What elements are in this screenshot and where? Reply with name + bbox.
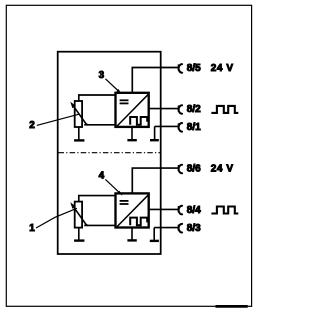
- converter U4 box: [116, 193, 149, 227]
- svg-text:4: 4: [99, 170, 105, 181]
- svg-text:3: 3: [99, 70, 105, 81]
- label 2: [29, 120, 35, 131]
- wire converter U3 output to pin 8/2: [149, 108, 178, 110]
- converter U3 box: [116, 93, 149, 127]
- leader line from label 1: [36, 208, 77, 228]
- pulse waveform icon (pin 8/4): [211, 207, 238, 214]
- ground (sensor element 2): [74, 128, 84, 141]
- pin 8/4 label: [187, 205, 201, 216]
- arrow through sensor element 2: [70, 102, 88, 125]
- 24 V label (pin 8/5): [211, 63, 234, 74]
- wire sensor wiper to converter: [84, 224, 115, 226]
- leader line from label 4: [105, 179, 122, 195]
- ground (converter U3): [127, 128, 136, 140]
- wire pin 8/1: [155, 125, 179, 127]
- pin 8/6 label: [187, 164, 201, 175]
- ground (converter U4): [127, 228, 136, 240]
- pin 8/3 contact: [178, 224, 182, 233]
- wire pin 8/3: [154, 227, 178, 229]
- pin 8/2 contact: [178, 105, 182, 114]
- pin 8/2 label: [187, 104, 201, 115]
- wire sensor top to converter (node): [79, 196, 116, 202]
- leader line from label 2: [37, 114, 79, 125]
- 24 V label (pin 8/6): [211, 164, 234, 175]
- pin 8/1 contact: [178, 123, 182, 132]
- arrow through sensor element 1: [70, 202, 88, 225]
- pulse waveform icon (pin 8/2): [211, 106, 238, 113]
- svg-text:8/4: 8/4: [187, 205, 201, 216]
- pin 8/5 label: [187, 63, 201, 74]
- svg-text:8/5: 8/5: [187, 63, 201, 74]
- label 1: [29, 223, 35, 234]
- label 4: [99, 170, 105, 181]
- svg-text:8/2: 8/2: [187, 104, 201, 115]
- sensor element 1 (variable resistor body): [75, 202, 82, 228]
- pin 8/6 contact: [178, 165, 182, 174]
- svg-text:2: 2: [29, 120, 35, 131]
- wire converter U3 supply to pin 8/5: [132, 68, 178, 93]
- leader line from label 3: [105, 79, 121, 94]
- wire converter U4 output to pin 8/4: [149, 208, 178, 210]
- pin 8/1 label: [187, 122, 201, 133]
- converter U4 pulse symbol: [130, 218, 147, 226]
- svg-text:8/6: 8/6: [187, 164, 201, 175]
- svg-text:8/3: 8/3: [187, 223, 201, 234]
- wire sensor wiper to converter: [84, 124, 115, 126]
- ground (pin 8/1 reference): [150, 126, 159, 140]
- sensor housing outline: [58, 52, 161, 254]
- svg-text:24 V: 24 V: [211, 63, 234, 74]
- converter U3 diagonal: [117, 94, 149, 126]
- svg-text:1: 1: [29, 223, 35, 234]
- sensor element 2 (variable resistor body): [75, 101, 82, 127]
- wire sensor top to converter (node): [79, 95, 116, 101]
- channel separator chain line: [59, 152, 161, 154]
- wire converter U4 supply to pin 8/6: [132, 168, 178, 193]
- label 3: [99, 70, 105, 81]
- converter U4 diagonal: [117, 195, 149, 227]
- pin 8/3 label: [187, 223, 201, 234]
- pin 8/5 contact: [178, 64, 182, 73]
- ground (sensor element 1): [74, 228, 84, 241]
- converter U3 pulse symbol: [130, 117, 147, 125]
- ground (pin 8/3 reference): [150, 228, 159, 241]
- converter U3 DC symbol (=): [120, 100, 129, 103]
- svg-text:24 V: 24 V: [211, 164, 234, 175]
- converter U4 DC symbol (=): [120, 201, 129, 204]
- outer border frame: [6, 5, 251, 306]
- svg-text:8/1: 8/1: [187, 122, 201, 133]
- pin 8/4 contact: [178, 206, 182, 215]
